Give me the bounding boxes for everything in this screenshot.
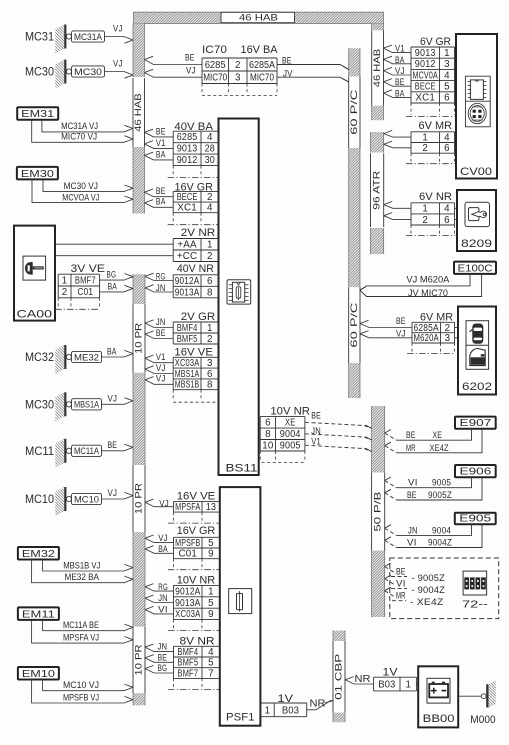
harness bar 10 PR third label: [133, 627, 145, 693]
connector MBS1A: [72, 399, 102, 410]
svg-text:10 PR: 10 PR: [134, 482, 144, 514]
svg-text:BE: BE: [396, 316, 406, 326]
wire from B03 to BB00: [416, 683, 418, 685]
dashed tail 8V NR PSF1: [173, 678, 175, 688]
splice E906: [455, 465, 496, 477]
svg-text:VJ: VJ: [108, 394, 118, 404]
svg-text:8: 8: [207, 287, 213, 298]
dashed tail 6V GR: [410, 103, 412, 115]
svg-text:2: 2: [422, 143, 428, 154]
wire from 96 ATR to row 2 CV00: [384, 141, 393, 144]
svg-text:2: 2: [62, 287, 68, 298]
svg-text:MC30: MC30: [25, 399, 54, 411]
svg-text:E906: E906: [460, 466, 492, 478]
svg-text:- 9004Z: - 9004Z: [412, 585, 446, 595]
svg-text:MC30: MC30: [25, 67, 54, 79]
harness bar 46 HAB right leg: [372, 24, 384, 31]
svg-text:BECE: BECE: [415, 82, 436, 93]
svg-text:9: 9: [208, 609, 214, 620]
key icon in 8209: [465, 202, 490, 226]
svg-text:E100C: E100C: [458, 262, 493, 274]
svg-text:MC30: MC30: [74, 67, 102, 77]
svg-text:MCVOA VJ: MCVOA VJ: [62, 192, 99, 203]
label 46 HAB top: [221, 12, 295, 22]
svg-text:9013: 9013: [177, 144, 198, 155]
dashed tail 16V VE: [172, 390, 174, 401]
door icon in 6202: [470, 348, 485, 365]
unit 72 dashed box: [390, 558, 499, 619]
icons frame in CV00: [465, 76, 490, 127]
svg-text:XC1: XC1: [177, 203, 197, 214]
svg-text:3: 3: [444, 59, 450, 70]
svg-text:9004Z: 9004Z: [428, 538, 452, 548]
round connector icon in CV00: [468, 103, 486, 123]
svg-text:JN: JN: [158, 642, 168, 652]
svg-text:5: 5: [208, 658, 214, 669]
svg-text:MC31A VJ: MC31A VJ: [61, 121, 98, 132]
svg-text:6: 6: [444, 215, 450, 226]
wire from BB00 to M000: [458, 695, 481, 697]
svg-text:CA00: CA00: [17, 309, 53, 321]
svg-text:9012: 9012: [177, 155, 198, 166]
svg-text:9005Z: 9005Z: [428, 490, 452, 500]
svg-text:MIC70 VJ: MIC70 VJ: [61, 132, 97, 143]
svg-text:1: 1: [265, 705, 270, 716]
car icon in 6202: [472, 324, 483, 344]
connector MC10: [72, 493, 102, 504]
svg-text:BA: BA: [158, 544, 168, 554]
svg-text:BMF5: BMF5: [177, 658, 198, 669]
svg-text:MPSFA VJ: MPSFA VJ: [63, 633, 99, 644]
svg-text:BG: BG: [107, 270, 117, 280]
svg-text:CV00: CV00: [460, 166, 492, 178]
svg-text:VJ: VJ: [186, 66, 196, 76]
fuse icon in PSF1: [229, 589, 252, 614]
svg-text:BE: BE: [108, 440, 118, 450]
wire from 96 ATR to row 2 8209: [384, 213, 393, 216]
svg-text:01 CBP: 01 CBP: [334, 654, 344, 700]
svg-text:EM11: EM11: [22, 608, 55, 620]
svg-text:72--: 72--: [462, 600, 488, 611]
svg-text:16V VE: 16V VE: [177, 491, 216, 503]
svg-text:BE: BE: [396, 567, 406, 577]
svg-text:MCV0A: MCV0A: [413, 70, 438, 81]
splice EM11: [18, 607, 59, 620]
svg-text:EM10: EM10: [22, 668, 55, 680]
svg-text:BE: BE: [156, 186, 166, 196]
svg-text:1: 1: [422, 204, 428, 215]
svg-text:2V GR: 2V GR: [181, 311, 215, 323]
svg-text:V1: V1: [156, 138, 166, 148]
svg-text:MC10: MC10: [74, 494, 99, 504]
svg-text:9012A: 9012A: [175, 586, 201, 597]
svg-text:E905: E905: [459, 513, 491, 525]
svg-text:JV MIC70: JV MIC70: [408, 288, 448, 299]
key icon in CA00: [23, 256, 46, 280]
svg-text:VJ: VJ: [396, 329, 406, 339]
svg-text:+CC: +CC: [177, 251, 197, 262]
svg-text:NR: NR: [310, 698, 326, 710]
svg-text:IC70: IC70: [202, 44, 227, 56]
svg-text:XE: XE: [285, 418, 296, 429]
svg-text:50 P/B: 50 P/B: [373, 492, 383, 532]
svg-text:6: 6: [265, 418, 271, 429]
svg-text:6V NR: 6V NR: [419, 191, 452, 203]
svg-text:V1: V1: [156, 352, 166, 362]
svg-text:4: 4: [207, 203, 213, 214]
svg-text:VJ: VJ: [395, 66, 405, 76]
svg-text:6V MR: 6V MR: [420, 312, 453, 324]
svg-text:BE: BE: [156, 328, 166, 338]
svg-text:6: 6: [207, 276, 213, 287]
unit 8209: [457, 190, 496, 251]
svg-text:VJ: VJ: [156, 363, 166, 373]
svg-text:9012A: 9012A: [175, 276, 200, 287]
harness bar 60 P/C upper: [349, 48, 360, 76]
svg-text:MR: MR: [406, 443, 416, 453]
svg-text:2: 2: [422, 215, 428, 226]
svg-text:2: 2: [207, 334, 213, 345]
svg-text:28: 28: [205, 144, 216, 155]
svg-text:BA: BA: [156, 149, 166, 159]
svg-text:6202: 6202: [462, 381, 492, 393]
dashed tail IC70: [201, 84, 203, 95]
svg-text:JN: JN: [408, 525, 418, 535]
svg-text:9004: 9004: [280, 429, 301, 440]
svg-text:BMF4: BMF4: [177, 647, 198, 658]
dashed tail 16V GR PSF1: [173, 559, 175, 569]
svg-text:B03: B03: [282, 705, 300, 716]
svg-text:5: 5: [444, 82, 450, 93]
svg-text:3V VE: 3V VE: [71, 263, 106, 275]
svg-text:- XE4Z: - XE4Z: [410, 597, 444, 607]
svg-text:BA: BA: [107, 347, 117, 357]
svg-text:XE: XE: [433, 430, 443, 440]
svg-text:5: 5: [208, 538, 214, 549]
svg-text:6: 6: [444, 93, 450, 104]
svg-text:60 P/C: 60 P/C: [349, 302, 359, 348]
svg-text:MPSFA: MPSFA: [175, 502, 200, 513]
svg-text:BA: BA: [395, 88, 405, 98]
svg-text:BE: BE: [158, 652, 168, 662]
harness bar 01 CBP: [333, 631, 345, 641]
svg-text:9: 9: [208, 549, 214, 560]
svg-text:MR: MR: [396, 591, 406, 601]
harness bar 60 P/C lower label: [349, 287, 360, 363]
svg-text:MIC70: MIC70: [203, 73, 227, 84]
svg-text:MPSFB VJ: MPSFB VJ: [63, 693, 99, 704]
splice E905: [455, 513, 496, 525]
svg-text:10V NR: 10V NR: [177, 574, 216, 586]
svg-text:1V: 1V: [383, 667, 399, 679]
svg-text:6: 6: [444, 143, 450, 154]
svg-text:XC03A: XC03A: [175, 609, 201, 620]
svg-text:ME32 BA: ME32 BA: [65, 572, 100, 583]
unit PSF1: [220, 487, 261, 726]
svg-text:9004: 9004: [432, 525, 451, 535]
svg-text:8209: 8209: [461, 238, 492, 250]
svg-text:RG: RG: [156, 272, 166, 282]
svg-text:3: 3: [445, 333, 451, 344]
dashed tail 3V VE: [57, 298, 59, 308]
svg-text:16V BA: 16V BA: [241, 44, 279, 56]
svg-text:XC03A: XC03A: [175, 358, 200, 369]
splice E100C: [454, 262, 496, 274]
svg-text:MBS1B: MBS1B: [175, 380, 200, 391]
svg-text:+AA: +AA: [177, 240, 197, 251]
svg-text:MC31A: MC31A: [74, 32, 102, 42]
dashed tail 6V MR 6202: [411, 343, 413, 352]
svg-text:VI: VI: [158, 605, 168, 615]
svg-text:46 HAB: 46 HAB: [239, 13, 278, 23]
svg-text:8V NR: 8V NR: [180, 635, 215, 647]
svg-text:JN: JN: [156, 283, 166, 293]
dashed tail 10V NR PSF1: [173, 620, 175, 630]
svg-text:BE: BE: [395, 77, 405, 87]
svg-text:10V NR: 10V NR: [270, 406, 310, 418]
svg-text:MPSFB: MPSFB: [175, 538, 200, 549]
relay icon in BS11: [227, 280, 251, 304]
svg-text:60 P/C: 60 P/C: [349, 89, 359, 135]
svg-text:9013A: 9013A: [175, 287, 200, 298]
svg-text:VJ M620A: VJ M620A: [406, 275, 450, 286]
svg-text:6285A: 6285A: [249, 60, 275, 71]
unit BB00: [418, 666, 458, 727]
svg-text:VJ: VJ: [158, 533, 168, 543]
harness bar 50 P/B: [372, 406, 385, 473]
connector MC31A: [72, 31, 105, 42]
unit BS11: [219, 119, 259, 476]
svg-text:BE: BE: [185, 53, 195, 63]
wire from 96 ATR to row 1 CV00: [384, 130, 393, 133]
svg-text:VJ: VJ: [113, 24, 123, 34]
svg-text:2V NR: 2V NR: [181, 227, 215, 239]
svg-text:16V VE: 16V VE: [174, 347, 213, 359]
svg-text:VI: VI: [408, 478, 418, 488]
svg-text:6V GR: 6V GR: [420, 36, 451, 48]
svg-text:VI: VI: [396, 579, 406, 589]
svg-text:EM31: EM31: [21, 108, 54, 120]
svg-text:BMF7: BMF7: [75, 275, 96, 286]
svg-text:MC11A BE: MC11A BE: [63, 620, 99, 631]
harness bar 10 PR second label: [133, 465, 145, 532]
svg-text:4: 4: [444, 204, 450, 215]
svg-text:BE: BE: [406, 430, 416, 440]
svg-text:9013: 9013: [415, 48, 436, 59]
svg-text:4: 4: [208, 647, 214, 658]
svg-text:VJ: VJ: [156, 374, 166, 384]
harness bar 10 PR: [133, 274, 145, 304]
wire +CC from CA00 to BS11: [55, 255, 173, 257]
svg-text:MIC70: MIC70: [250, 73, 274, 84]
svg-text:4: 4: [444, 133, 450, 144]
svg-text:30: 30: [205, 155, 216, 166]
svg-text:V1: V1: [395, 44, 405, 54]
wire from 96 ATR to row 1 8209: [384, 201, 393, 204]
svg-text:6V MR: 6V MR: [419, 120, 453, 132]
svg-text:NR: NR: [355, 673, 371, 685]
svg-text:1: 1: [208, 586, 214, 597]
svg-text:M620A: M620A: [414, 333, 440, 344]
svg-text:BMF4: BMF4: [177, 323, 198, 334]
harness bar 46 HAB left leg: [133, 24, 145, 78]
svg-text:MC11: MC11: [25, 446, 54, 458]
svg-text:46 HAB: 46 HAB: [372, 49, 382, 88]
unit 6202: [458, 307, 496, 395]
harness bar 96 ATR: [371, 132, 384, 153]
svg-text:40V NR: 40V NR: [177, 263, 214, 275]
svg-text:1: 1: [405, 680, 410, 691]
dashed tail 6V MR CV00: [410, 153, 412, 162]
svg-text:6285: 6285: [205, 60, 227, 71]
svg-text:4: 4: [207, 132, 213, 143]
svg-text:8: 8: [207, 380, 213, 391]
svg-text:MBS1A: MBS1A: [74, 400, 99, 410]
svg-text:2: 2: [207, 192, 213, 203]
svg-text:10 PR: 10 PR: [134, 644, 144, 676]
svg-text:ME32: ME32: [74, 352, 99, 362]
svg-text:7: 7: [208, 668, 214, 679]
battery icon in BB00: [427, 678, 450, 703]
svg-text:10: 10: [262, 441, 274, 452]
unit CV00: [456, 34, 497, 179]
svg-text:BMF5: BMF5: [177, 334, 198, 345]
svg-text:BG: BG: [158, 663, 168, 673]
svg-text:B03: B03: [378, 680, 396, 691]
svg-text:XE4Z: XE4Z: [430, 443, 449, 453]
svg-text:3: 3: [235, 73, 241, 84]
svg-text:BMF7: BMF7: [177, 668, 198, 679]
svg-text:EM32: EM32: [22, 548, 55, 560]
svg-text:MC11A: MC11A: [74, 446, 99, 456]
svg-text:2: 2: [235, 60, 240, 71]
svg-text:1: 1: [207, 323, 213, 334]
svg-text:RG: RG: [158, 582, 168, 592]
svg-text:46 HAB: 46 HAB: [133, 93, 143, 132]
svg-text:MC30 VJ: MC30 VJ: [64, 181, 99, 192]
svg-text:E907: E907: [460, 417, 492, 429]
svg-text:6: 6: [207, 369, 213, 380]
svg-text:JN: JN: [156, 317, 166, 327]
svg-text:1: 1: [422, 133, 428, 144]
connector ME32: [72, 351, 102, 362]
dashed tail 16V VE PSF1: [173, 512, 175, 522]
svg-text:MC32: MC32: [25, 352, 54, 364]
svg-text:BA: BA: [156, 197, 166, 207]
svg-text:MBS1A: MBS1A: [175, 369, 200, 380]
dashed tail 6V NR: [410, 225, 412, 234]
splice E907: [455, 417, 496, 429]
svg-text:10 PR: 10 PR: [134, 322, 144, 354]
dashed tail 10V NR: [259, 451, 261, 461]
svg-text:16V GR: 16V GR: [177, 525, 216, 537]
svg-text:13: 13: [206, 502, 217, 513]
wire +AA from CA00 to BS11: [55, 243, 173, 245]
svg-text:BE: BE: [282, 56, 292, 66]
svg-text:96 ATR: 96 ATR: [372, 170, 382, 210]
unit CA00: [14, 226, 55, 321]
svg-text:1: 1: [62, 275, 68, 286]
icons frame in 6202: [466, 321, 489, 370]
svg-text:PSF1: PSF1: [226, 712, 255, 724]
IC chip icon in CV00: [470, 80, 483, 100]
svg-text:1: 1: [207, 240, 213, 251]
svg-text:BB00: BB00: [423, 713, 455, 725]
svg-text:BS11: BS11: [226, 463, 258, 475]
svg-text:- 9005Z: - 9005Z: [412, 573, 446, 583]
splice EM32: [18, 547, 59, 560]
svg-text:BE: BE: [156, 126, 166, 136]
splice EM31: [17, 107, 58, 120]
svg-text:9005: 9005: [280, 441, 301, 452]
svg-text:C01: C01: [179, 549, 198, 560]
svg-text:5: 5: [208, 598, 214, 609]
splice EM30: [17, 167, 58, 180]
svg-text:8: 8: [265, 429, 271, 440]
dashed tail 40V BA: [172, 166, 174, 177]
connector icon in 72 box: [463, 571, 487, 595]
svg-text:3: 3: [207, 358, 213, 369]
svg-text:6285: 6285: [177, 132, 198, 143]
connector MC30: [72, 66, 105, 77]
svg-text:MBS1B VJ: MBS1B VJ: [63, 561, 100, 572]
svg-text:MC31: MC31: [25, 32, 54, 44]
ground M000: [481, 694, 486, 699]
svg-text:4: 4: [444, 70, 450, 81]
svg-text:1: 1: [444, 48, 450, 59]
svg-text:MC10: MC10: [25, 494, 54, 506]
svg-text:V1: V1: [311, 437, 321, 447]
svg-text:BA: BA: [108, 281, 118, 291]
svg-text:C01: C01: [78, 287, 94, 298]
harness bar 46 HAB top: [134, 12, 384, 23]
svg-text:2: 2: [207, 251, 213, 262]
svg-text:EM30: EM30: [21, 168, 54, 180]
svg-text:9012: 9012: [415, 59, 436, 70]
splice EM10: [18, 667, 59, 680]
svg-text:BA: BA: [395, 55, 405, 65]
svg-text:BECE: BECE: [177, 192, 198, 203]
svg-text:MC10 VJ: MC10 VJ: [63, 680, 99, 691]
dashed tail 16V GR: [172, 213, 174, 224]
svg-text:BE: BE: [311, 411, 321, 421]
svg-text:9005: 9005: [432, 478, 451, 488]
svg-text:VJ: VJ: [113, 59, 123, 69]
svg-text:VJ: VJ: [108, 488, 118, 498]
svg-text:9013A: 9013A: [175, 598, 201, 609]
connector MC11A: [72, 445, 102, 456]
svg-text:M000: M000: [470, 714, 495, 726]
svg-text:VI: VI: [407, 538, 417, 548]
svg-text:BE: BE: [407, 490, 417, 500]
svg-text:JN: JN: [158, 593, 168, 603]
svg-text:XC1: XC1: [415, 93, 435, 104]
